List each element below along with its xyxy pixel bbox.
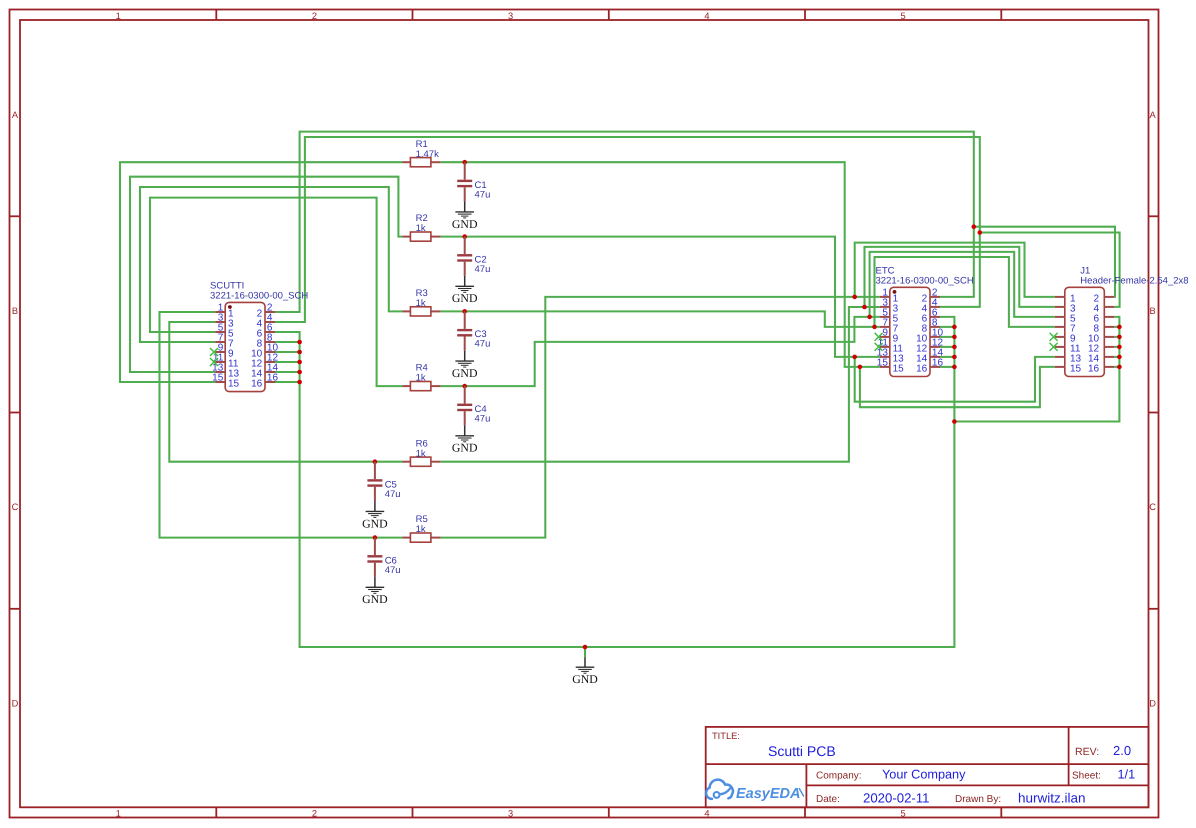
svg-text:16: 16 (916, 363, 928, 374)
resistor R4 (403, 363, 441, 391)
wire SCUTTI.14 to GND (275, 371, 300, 373)
svg-text:GND: GND (362, 516, 388, 530)
SCUTTI no-connect X pin 11 (210, 358, 218, 366)
svg-text:4: 4 (704, 808, 709, 818)
J1 pin 14 (1088, 353, 1114, 364)
junction ETC.8 (952, 325, 957, 330)
ETC pin 15 (877, 358, 904, 375)
junction ETC.3 (862, 305, 867, 310)
SCUTTI pin1 marker (228, 305, 232, 309)
wire net SCUTTI.4 to ETC.4 (275, 137, 980, 322)
svg-text:GND: GND (452, 217, 478, 231)
wire net R1 out to ETC.15 (441, 162, 880, 367)
junction ETC.10 (952, 335, 957, 340)
wire net SCUTTI.2 to ETC.2 (275, 132, 974, 312)
capacitor C5 (367, 462, 400, 501)
wire SCUTTI.10 to GND (275, 351, 300, 353)
svg-text:A: A (12, 110, 19, 120)
svg-text:D: D (1149, 699, 1156, 709)
J1 pin 8 (1094, 323, 1115, 334)
wire branch to J1.13 (855, 357, 1055, 402)
svg-text:15: 15 (893, 363, 905, 374)
ground GND under C5 (362, 501, 388, 530)
ETC pin 7 (880, 318, 899, 335)
J1 no-connect X pin 9 (1050, 333, 1058, 341)
junction J1.8 (1117, 325, 1122, 330)
frame column labels (116, 11, 906, 818)
junction ETC.12 (952, 345, 957, 350)
connector J1 body (1065, 287, 1105, 376)
wire J1.12 to GND (1114, 346, 1119, 348)
SCUTTI pin 8 (257, 333, 275, 350)
wire net SCUTTI.13 to R2 (130, 177, 403, 372)
svg-text:hurwitz.ilan: hurwitz.ilan (1018, 790, 1086, 805)
svg-text:REV:: REV: (1075, 746, 1099, 758)
wire net R2 out to ETC.13 (441, 237, 880, 357)
svg-text:1/1: 1/1 (1118, 768, 1136, 782)
junction ETC.1 (852, 295, 857, 300)
J1 pin 1 (1055, 293, 1076, 304)
J1 pin 16 (1088, 363, 1114, 374)
SCUTTI pin 3 (215, 313, 234, 330)
J1 no-connect X pin 11 (1050, 343, 1058, 351)
SCUTTI pin 2 (257, 303, 275, 320)
wire branch to J1.4 (980, 233, 1120, 307)
SCUTTI pin 6 (257, 323, 275, 340)
ETC no-connect X pin 11 (875, 343, 883, 351)
junction ETC.15 (858, 365, 863, 370)
wire ETC.16 to GND (940, 366, 954, 368)
J1 pin 9 (1055, 333, 1076, 344)
wire SCUTTI.16 to GND (275, 381, 300, 383)
svg-text:Sheet:: Sheet: (1072, 770, 1101, 781)
wire ETC.10 to GND (940, 336, 954, 338)
capacitor C6 (367, 538, 400, 577)
svg-text:15: 15 (1070, 363, 1082, 374)
svg-text:3221-16-0300-00_SCH: 3221-16-0300-00_SCH (876, 276, 974, 287)
ETC pin 12 (916, 338, 943, 355)
svg-text:B: B (1149, 306, 1155, 316)
J1 pin 12 (1088, 343, 1114, 354)
title block texts (712, 731, 1135, 805)
svg-text:GND: GND (572, 672, 598, 686)
SCUTTI pin 12 (251, 353, 278, 370)
J1 label (1080, 266, 1188, 287)
wire ETC.8 to GND (940, 326, 954, 328)
wire branch to J1.2 (974, 227, 1115, 297)
SCUTTI pin 16 (251, 373, 278, 390)
ETC pin1 marker (893, 290, 897, 294)
junction R2-C2 (462, 234, 467, 239)
svg-text:5: 5 (901, 808, 906, 818)
ground GND under C1 (452, 202, 478, 231)
svg-text:2: 2 (312, 11, 317, 21)
wire branch to J1.15 (860, 367, 1055, 407)
wire SCUTTI.8 to GND (275, 341, 300, 343)
J1 pin 13 (1055, 353, 1082, 364)
ETC pin 1 (880, 288, 899, 305)
SCUTTI label (210, 281, 308, 302)
wire J1.16 to GND (1114, 366, 1119, 368)
frame row labels (12, 110, 1157, 709)
wire J1.8 to GND (1114, 326, 1119, 328)
junction ETC.14 (952, 355, 957, 360)
SCUTTI pin 15 (212, 373, 239, 390)
junction J1.4 branch (978, 230, 983, 235)
resistor R3 (403, 288, 441, 316)
svg-text:4: 4 (704, 11, 709, 21)
ETC pin 10 (916, 328, 943, 345)
EasyEDA logo (706, 780, 804, 802)
resistor R6 (403, 438, 441, 466)
junction R4-C4 (462, 384, 467, 389)
junction J1.10 (1117, 335, 1122, 340)
SCUTTI pin 11 (213, 353, 239, 370)
svg-text:15: 15 (877, 358, 889, 369)
svg-text:1k: 1k (416, 223, 426, 234)
svg-text:47u: 47u (475, 190, 491, 201)
SCUTTI pin 7 (215, 333, 234, 350)
svg-text:B: B (12, 306, 18, 316)
svg-text:16: 16 (251, 379, 263, 390)
wire net SCUTTI.3 to R6 (169, 322, 402, 462)
junction ETC.5 (867, 315, 872, 320)
wire ETC.12 to GND (940, 346, 954, 348)
resistor R2 (403, 213, 441, 241)
svg-text:C: C (1149, 502, 1156, 512)
wire J1.10 to GND (1114, 336, 1119, 338)
J1 pin 5 (1055, 313, 1076, 324)
junction SCUTTI.8 (297, 340, 302, 345)
svg-text:TITLE:: TITLE: (712, 731, 740, 741)
wire branch to J1.5 (870, 252, 1055, 317)
wire J1.14 to GND (1114, 356, 1119, 358)
junction SCUTTI.10 (297, 350, 302, 355)
wire GND branch to J1.6 (954, 317, 1119, 422)
ETC pin 11 (878, 338, 904, 355)
wire net R5 out to ETC.1 (441, 297, 880, 538)
junction GND rail (583, 645, 588, 650)
svg-text:1k: 1k (416, 524, 426, 535)
ETC pin 6 (922, 308, 940, 325)
wire net R3 out to ETC.7 (441, 311, 880, 327)
svg-text:Your Company: Your Company (882, 768, 966, 782)
J1 pin 4 (1094, 303, 1115, 314)
junction ETC.7 (872, 325, 877, 330)
svg-text:16: 16 (1088, 363, 1100, 374)
svg-text:1: 1 (116, 808, 121, 818)
junction J1.2 branch (972, 224, 977, 229)
junction R1-C1 (462, 160, 467, 165)
ground GND under C6 (362, 577, 388, 606)
svg-text:1: 1 (116, 11, 121, 21)
svg-text:47u: 47u (475, 264, 491, 275)
junction SCUTTI.16 (297, 380, 302, 385)
junction ETC.16 (952, 365, 957, 370)
resistor R1 (403, 139, 441, 167)
capacitor C4 (457, 386, 490, 425)
ETC pin 5 (880, 308, 899, 325)
svg-text:Drawn By:: Drawn By: (955, 794, 1001, 805)
junction GND cross branch (952, 419, 957, 424)
svg-text:1.47k: 1.47k (416, 149, 439, 160)
wire ETC.14 to GND (940, 356, 954, 358)
junction J1.12 (1117, 345, 1122, 350)
svg-text:16: 16 (267, 373, 279, 384)
J1 pin 11 (1055, 343, 1081, 354)
junction R6-C5 (373, 459, 378, 464)
wire branch to J1.1 (855, 243, 1055, 297)
wire net R4 out to ETC.5 (441, 317, 880, 386)
svg-text:A: A (1149, 110, 1156, 120)
ETC label (876, 266, 974, 287)
ground GND under C3 (452, 351, 478, 380)
SCUTTI pin 4 (257, 313, 275, 330)
SCUTTI pin 10 (251, 343, 278, 360)
ETC pin 4 (922, 298, 940, 315)
svg-text:GND: GND (452, 291, 478, 305)
svg-text:C: C (12, 502, 19, 512)
svg-text:47u: 47u (475, 413, 491, 424)
SCUTTI no-connect X pin 9 (210, 348, 218, 356)
svg-text:3221-16-0300-00_SCH: 3221-16-0300-00_SCH (210, 291, 308, 302)
wire net SCUTTI.5 to R4 (150, 198, 403, 387)
svg-text:47u: 47u (475, 339, 491, 350)
wire net GND rail SCUTTI.6 to ETC.6 (275, 317, 954, 647)
SCUTTI pin 14 (251, 363, 278, 380)
svg-text:GND: GND (452, 366, 478, 380)
svg-text:GND: GND (452, 441, 478, 455)
ETC no-connect X pin 9 (875, 333, 883, 341)
junction R3-C3 (462, 309, 467, 314)
ETC pin 2 (922, 288, 940, 305)
wire net SCUTTI.7 to R3 (140, 187, 403, 342)
svg-text:Date:: Date: (816, 794, 840, 805)
J1 pin 2 (1094, 293, 1115, 304)
svg-text:2020-02-11: 2020-02-11 (863, 790, 929, 805)
svg-text:3: 3 (508, 808, 513, 818)
ETC pin 8 (922, 318, 940, 335)
connector ETC body (890, 287, 930, 376)
J1 pin 6 (1094, 313, 1115, 324)
svg-text:15: 15 (228, 379, 240, 390)
title block (706, 727, 1149, 807)
svg-text:2: 2 (312, 808, 317, 818)
resistor R5 (403, 514, 441, 542)
SCUTTI pin 5 (215, 323, 234, 340)
svg-text:2.0: 2.0 (1113, 743, 1131, 758)
SCUTTI pin 1 (215, 303, 234, 320)
junction SCUTTI.12 (297, 360, 302, 365)
capacitor C2 (457, 237, 490, 276)
svg-text:1k: 1k (416, 298, 426, 309)
wire SCUTTI.12 to GND (275, 361, 300, 363)
ETC pin 16 (916, 358, 943, 375)
connector SCUTTI body (225, 302, 265, 391)
SCUTTI pin 9 (215, 343, 234, 360)
J1 pin 7 (1055, 323, 1076, 334)
J1 pin 15 (1055, 363, 1082, 374)
J1 pin 3 (1055, 303, 1076, 314)
ground GND at bottom rail (572, 658, 598, 687)
svg-text:D: D (12, 699, 19, 709)
svg-text:Header-Female-2.54_2x8: Header-Female-2.54_2x8 (1080, 276, 1188, 287)
SCUTTI pin 13 (212, 363, 239, 380)
ground GND under C4 (452, 425, 478, 454)
svg-text:47u: 47u (385, 565, 401, 576)
capacitor C3 (457, 311, 490, 350)
ETC pin 9 (880, 328, 899, 345)
wire net R6 out to ETC.3 (441, 307, 880, 462)
wire branch to J1.7 (875, 257, 1055, 327)
svg-text:Company:: Company: (816, 770, 862, 781)
svg-text:5: 5 (901, 11, 906, 21)
svg-text:16: 16 (932, 358, 944, 369)
svg-text:1k: 1k (416, 373, 426, 384)
svg-text:3: 3 (508, 11, 513, 21)
svg-text:1k: 1k (416, 448, 426, 459)
ground GND under C2 (452, 276, 478, 305)
svg-text:GND: GND (362, 592, 388, 606)
ETC pin 3 (880, 298, 899, 315)
junction SCUTTI.14 (297, 370, 302, 375)
wire net SCUTTI.1 to R5 (160, 312, 403, 538)
svg-text:Scutti PCB: Scutti PCB (768, 743, 836, 759)
junction J1.14 (1117, 355, 1122, 360)
junction ETC.13 (852, 355, 857, 360)
svg-text:EasyEDA: EasyEDA (736, 786, 800, 802)
wire net SCUTTI.15 to R1 (120, 162, 403, 382)
ETC pin 13 (877, 348, 904, 365)
ETC pin 14 (916, 348, 943, 365)
wire GND rail stub (584, 647, 586, 658)
junction J1.16 (1117, 365, 1122, 370)
svg-text:15: 15 (212, 373, 224, 384)
J1 pin 10 (1088, 333, 1114, 344)
capacitor C1 (457, 162, 490, 201)
svg-text:47u: 47u (385, 489, 401, 500)
junction R5-C6 (373, 535, 378, 540)
wire branch to J1.3 (865, 247, 1055, 307)
